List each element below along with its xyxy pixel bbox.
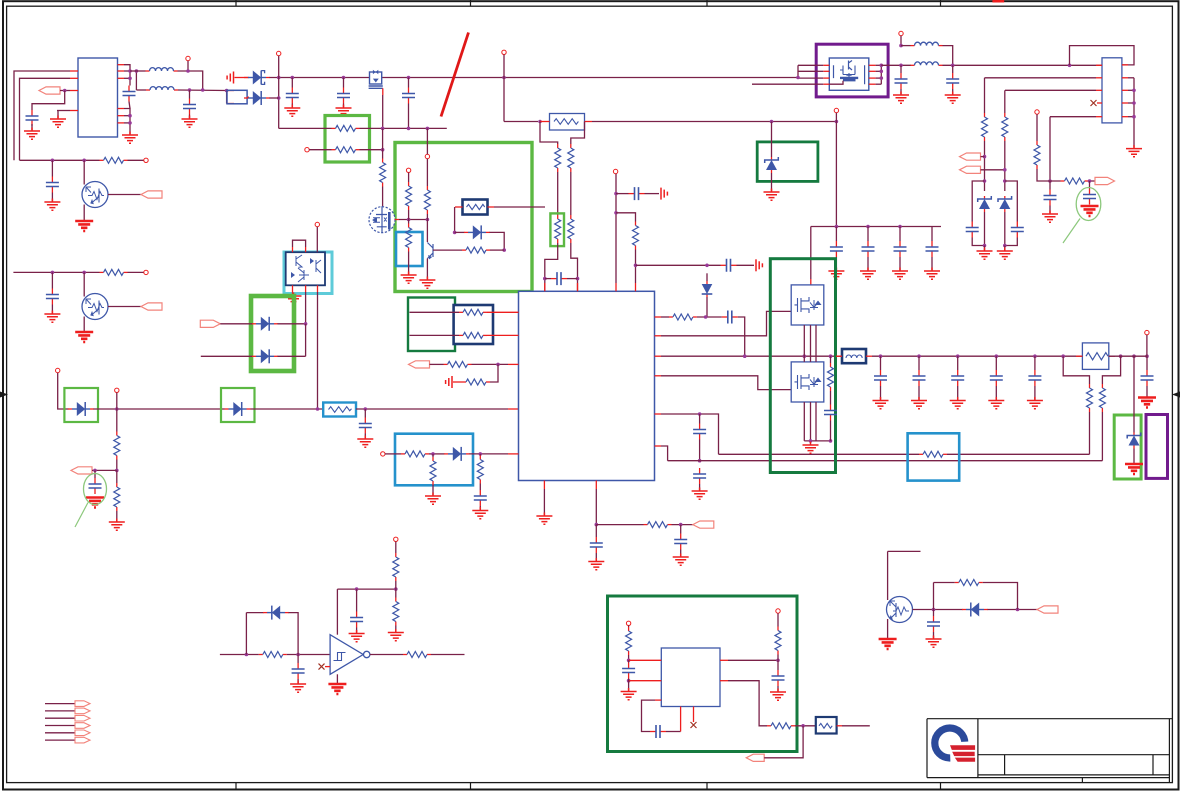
junction dot <box>595 523 599 527</box>
wire <box>32 91 65 111</box>
resistor R42 <box>767 725 771 727</box>
wire <box>426 128 428 154</box>
wire <box>83 317 85 332</box>
pin tag P4 <box>200 320 220 327</box>
pin tag P4 <box>960 153 981 160</box>
wire <box>983 583 1018 610</box>
junction dot <box>128 69 132 73</box>
wire <box>503 55 505 122</box>
junction dot <box>1003 168 1007 172</box>
annotation leader line <box>75 503 88 528</box>
terminal <box>144 270 148 274</box>
wire <box>453 381 462 383</box>
wire <box>292 285 294 294</box>
junction dot <box>381 148 385 152</box>
wire <box>699 484 701 490</box>
wire <box>880 65 882 84</box>
wire <box>1089 412 1091 454</box>
wire <box>94 408 225 410</box>
resistor R24 <box>432 457 434 461</box>
wire <box>728 659 778 661</box>
junction dot <box>538 120 542 124</box>
junction dot <box>82 159 86 163</box>
zener diode D10 <box>984 196 986 199</box>
wire <box>488 206 495 208</box>
junction dot <box>225 89 229 93</box>
resistor R8 <box>570 215 572 219</box>
wire rail <box>1109 355 1147 357</box>
junction dot <box>1119 354 1123 358</box>
capacitor C10 <box>995 370 997 376</box>
wire <box>432 485 434 495</box>
wire <box>487 311 519 313</box>
diode D6 <box>68 408 72 410</box>
wire <box>596 524 643 526</box>
junction dot <box>983 244 987 248</box>
border mid arrow right <box>1172 392 1180 398</box>
wire <box>108 306 141 308</box>
ground <box>109 519 125 531</box>
resistor R1 <box>100 159 104 161</box>
terminal <box>315 222 319 226</box>
wire <box>289 613 299 655</box>
ground GND6 <box>911 397 927 409</box>
wire <box>178 89 227 92</box>
wire <box>661 316 669 318</box>
inductor L3 <box>911 45 915 47</box>
resistor R39 <box>403 654 407 656</box>
pin tag P1 <box>39 87 60 94</box>
terminal <box>394 537 398 541</box>
ground <box>122 132 138 144</box>
wire <box>957 356 959 370</box>
highlight box (blue) <box>395 434 473 486</box>
wire <box>45 710 75 712</box>
pin tag P6 <box>409 361 430 368</box>
pin tag P9 <box>1095 177 1115 184</box>
chassis ground <box>227 72 233 84</box>
wire <box>118 64 125 66</box>
optocoupler U2 <box>286 252 325 285</box>
wire <box>395 219 399 221</box>
highlight box (green) G3 <box>251 296 294 371</box>
component box F4 (boxed resistor) <box>323 403 356 417</box>
junction dot <box>1003 244 1007 248</box>
resistor R34 <box>1101 384 1103 388</box>
capacitor C22 <box>1049 190 1051 196</box>
capacitor C40 <box>933 616 935 622</box>
wire <box>57 110 70 112</box>
capacitor C6 <box>408 88 410 94</box>
wire <box>278 355 306 357</box>
capacitor C37 <box>628 663 630 669</box>
wire <box>305 324 307 357</box>
wire <box>136 89 146 91</box>
wire <box>1049 181 1051 190</box>
wire <box>201 355 253 357</box>
wire <box>118 77 125 79</box>
junction dot <box>543 277 547 281</box>
component box F8 (boxed resistor) <box>816 717 837 734</box>
wire <box>410 334 460 336</box>
wire <box>972 181 984 222</box>
junction dot <box>291 76 295 80</box>
junction dot <box>1132 101 1136 105</box>
border red mark top <box>992 0 1004 3</box>
junction dot <box>1033 354 1037 358</box>
wire <box>1089 181 1091 189</box>
diode D2 <box>244 97 248 99</box>
junction dot <box>829 354 833 358</box>
transistor module Q6 (MOSFET) <box>791 285 824 325</box>
ground <box>182 116 198 128</box>
wire <box>431 654 465 656</box>
wire <box>124 77 130 79</box>
wire <box>1128 77 1134 79</box>
border mid arrow left <box>0 392 8 398</box>
wire <box>235 77 250 79</box>
wire <box>880 356 882 370</box>
ground <box>328 684 346 694</box>
wire <box>984 212 986 246</box>
terminal <box>626 621 630 625</box>
junction dot <box>51 159 55 163</box>
wire <box>661 414 719 454</box>
junction dot <box>381 127 385 131</box>
wire <box>429 453 445 455</box>
capacitor C10 <box>629 193 635 195</box>
pin tag P7 <box>693 521 714 528</box>
wire <box>83 160 85 184</box>
junction dot <box>880 64 884 68</box>
wire <box>706 297 708 317</box>
junction dot <box>426 127 430 131</box>
resistor R35 <box>919 453 923 455</box>
resistor R12 <box>426 186 428 190</box>
junction dot <box>128 77 132 81</box>
capacitor C4 <box>291 88 293 94</box>
wire <box>245 613 247 655</box>
wire <box>1089 180 1096 182</box>
ground <box>401 272 417 284</box>
wire <box>616 193 629 195</box>
wire <box>1034 386 1036 400</box>
junction dot <box>898 225 902 229</box>
wire <box>810 227 812 280</box>
diode D14 <box>962 609 966 611</box>
inductor L1 <box>146 70 150 72</box>
wire <box>479 484 481 491</box>
wire <box>1005 238 1018 246</box>
capacitor C8 <box>918 370 920 376</box>
wire <box>764 726 803 758</box>
wire <box>635 250 637 284</box>
wire <box>270 97 279 99</box>
wire <box>1133 356 1135 432</box>
wire <box>823 70 829 72</box>
junction dot <box>93 469 97 473</box>
component box F1 (fuse) <box>227 90 247 104</box>
pin tag <box>75 730 90 736</box>
wire <box>1096 77 1102 79</box>
ground <box>1138 398 1156 408</box>
wire <box>876 70 882 72</box>
wire <box>297 679 299 683</box>
resistor R41 <box>777 627 779 631</box>
no-connect X <box>1091 100 1097 106</box>
junction dot <box>835 120 839 124</box>
junction dot <box>1132 354 1136 358</box>
wire <box>720 659 728 661</box>
highlight box (dark green) <box>408 298 455 352</box>
wire <box>45 732 75 734</box>
resistor R38 <box>395 598 397 602</box>
resistor R25 <box>479 456 481 460</box>
chassis ground <box>756 259 762 271</box>
wire <box>408 210 410 220</box>
component box F5 (dual boxed resistor) <box>454 305 493 344</box>
junction dot <box>63 89 67 93</box>
inductor L2 <box>146 89 150 91</box>
wire <box>92 469 117 471</box>
capacitor C5 <box>899 241 901 247</box>
wire <box>70 77 78 79</box>
junction dot <box>502 248 506 252</box>
wire <box>995 356 997 370</box>
wire main rail <box>661 355 842 357</box>
wire <box>577 283 579 291</box>
wire <box>178 71 203 90</box>
highlight box (green) around R6 <box>550 213 564 246</box>
wire <box>487 334 519 336</box>
junction dot <box>502 76 506 80</box>
resistor R26 <box>644 524 648 526</box>
transistor Q2 <box>82 294 108 320</box>
ground <box>86 498 104 508</box>
wire <box>595 525 597 537</box>
wire <box>1128 116 1134 118</box>
border zone ticks bottom <box>236 783 941 790</box>
wire <box>752 83 816 85</box>
junction dot <box>899 64 903 68</box>
capacitor C36 <box>356 612 358 618</box>
wire <box>635 283 637 291</box>
wire <box>571 122 585 145</box>
wire <box>876 64 882 66</box>
terminal <box>1145 330 1149 334</box>
wire <box>829 81 843 84</box>
wire <box>595 553 597 561</box>
wire <box>364 409 366 418</box>
highlight box (dark green) G7 <box>608 596 798 752</box>
wire <box>479 506 481 510</box>
wire <box>124 115 130 117</box>
wire <box>881 64 911 66</box>
wire <box>116 511 118 521</box>
wire <box>777 655 779 661</box>
inductor L4 <box>911 64 915 66</box>
wire <box>900 36 902 46</box>
wire <box>135 71 137 90</box>
wire <box>472 363 509 365</box>
wire <box>408 173 410 183</box>
wire <box>798 70 816 72</box>
wire <box>795 725 816 727</box>
junction dot <box>698 412 702 416</box>
resistor R19 <box>459 311 463 313</box>
wire <box>699 414 701 424</box>
pin tag P3 <box>71 467 92 474</box>
junction dot <box>128 114 132 118</box>
junction dot <box>496 363 500 367</box>
wire <box>567 278 578 280</box>
wire <box>189 115 191 119</box>
junction dot <box>917 354 921 358</box>
company logo <box>935 728 965 758</box>
wire <box>227 90 234 92</box>
inverter U5 (schmitt trigger) <box>330 635 363 675</box>
junction dot <box>1048 179 1052 183</box>
junction dot <box>1132 89 1136 93</box>
wire <box>557 172 559 215</box>
IC U1 <box>78 58 118 137</box>
pin tag <box>75 723 90 729</box>
wire long <box>719 453 920 455</box>
junction dot <box>679 523 683 527</box>
junction dot <box>135 69 139 73</box>
diode D9 <box>444 453 448 455</box>
wire <box>830 356 832 363</box>
ground <box>75 221 93 231</box>
wire <box>595 481 597 490</box>
wire <box>545 243 558 291</box>
diode D13 <box>263 612 267 614</box>
resistor R5 <box>557 144 559 148</box>
zener diode D15 <box>771 157 773 160</box>
wire <box>655 375 662 377</box>
resistor R37 <box>395 553 397 557</box>
wire <box>1070 46 1135 66</box>
wire <box>899 227 901 242</box>
wire <box>867 227 869 242</box>
wire <box>57 111 59 119</box>
wire <box>823 77 829 79</box>
diode D4 <box>252 323 256 325</box>
capacitor C8 <box>364 418 366 424</box>
ground <box>44 311 60 323</box>
ground <box>75 332 93 342</box>
ground <box>879 639 897 649</box>
ground GND7 <box>950 397 966 409</box>
wire <box>124 70 130 72</box>
wire <box>816 77 823 79</box>
wire <box>680 707 682 732</box>
wire <box>931 227 933 242</box>
resistor R14 <box>408 224 410 228</box>
junction dot <box>1068 64 1072 68</box>
wire <box>777 660 779 670</box>
annotation ellipse (green) <box>84 474 107 505</box>
junction dot <box>1088 179 1092 183</box>
wire <box>309 149 331 151</box>
junction dot <box>355 587 359 591</box>
junction dot <box>342 76 346 80</box>
junction dot <box>614 192 618 196</box>
wire long <box>668 460 1103 462</box>
wire <box>545 278 551 280</box>
pin tag P5 <box>960 166 981 173</box>
capacitor C38 <box>650 731 656 733</box>
wire <box>655 699 661 701</box>
wire <box>693 707 695 723</box>
wire <box>70 90 78 92</box>
ground <box>997 248 1013 260</box>
junction dot <box>705 264 709 268</box>
junction dot <box>296 653 300 657</box>
ground <box>588 558 604 570</box>
wire <box>797 65 799 78</box>
wire <box>51 305 53 315</box>
wire <box>364 434 366 439</box>
resistor R22 <box>462 381 466 383</box>
pin tag P6 <box>746 754 764 761</box>
wire <box>1128 89 1134 91</box>
capacitor C4 <box>867 241 869 247</box>
wire <box>226 91 228 104</box>
wire <box>278 323 306 325</box>
capacitor C21 <box>1016 222 1018 228</box>
terminal <box>115 388 119 392</box>
ground <box>425 493 441 505</box>
no-connect X <box>319 664 325 670</box>
wire <box>51 193 53 203</box>
wire <box>305 247 307 252</box>
wire <box>666 731 681 733</box>
ground <box>1126 145 1142 157</box>
wire <box>543 481 545 490</box>
wire <box>70 110 78 112</box>
wire <box>988 609 1038 611</box>
terminal <box>305 148 309 152</box>
wire <box>278 56 280 78</box>
wire <box>1096 64 1102 66</box>
wire <box>737 264 755 266</box>
wire <box>984 78 986 113</box>
wire <box>382 95 384 128</box>
wire <box>645 193 660 195</box>
wire <box>571 243 578 291</box>
wire <box>1036 114 1038 141</box>
wire <box>655 316 662 318</box>
ground <box>673 554 689 566</box>
wire <box>508 408 519 410</box>
wire <box>83 205 85 221</box>
resistor R32 <box>830 363 832 367</box>
wire <box>803 325 805 362</box>
wire <box>130 70 146 72</box>
capacitor C1 <box>31 110 33 116</box>
wire <box>615 283 617 291</box>
wire <box>984 246 986 251</box>
ground <box>349 630 365 642</box>
wire <box>661 446 668 461</box>
ground <box>286 293 302 305</box>
terminal <box>381 452 385 456</box>
wire <box>187 61 189 71</box>
wire <box>628 626 630 628</box>
wire <box>490 364 498 382</box>
wire <box>1122 102 1128 104</box>
